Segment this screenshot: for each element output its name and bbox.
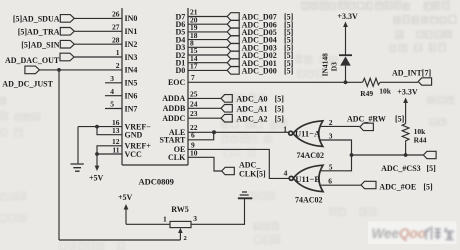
potentiometer RW5 body: [170, 221, 191, 227]
connector tag ADC_A1: [221, 105, 232, 113]
svg-text:[5]: [5]: [427, 164, 437, 173]
svg-text:+3.3V: +3.3V: [337, 12, 358, 21]
svg-text:CLK: CLK: [168, 153, 186, 162]
svg-text:13: 13: [112, 126, 120, 135]
svg-text:IN6: IN6: [125, 92, 138, 101]
wire D0 pin 17: [188, 69, 227, 71]
connector tag ADC_D06: [227, 20, 239, 28]
decorative bleed-through (not labelled): [302, 1, 449, 9]
svg-text:ADC_: ADC_: [239, 160, 261, 169]
svg-text:[5]: [5]: [275, 104, 285, 113]
svg-text:4: 4: [284, 169, 288, 178]
wire START pin 6 riser: [188, 132, 214, 140]
wire U11-B input pin 6 to ADC_#OE tag: [321, 184, 361, 186]
svg-text:[5]: [5]: [275, 114, 285, 123]
svg-text:IN3: IN3: [125, 53, 138, 62]
svg-text:D0: D0: [176, 66, 186, 75]
wire ALE pin 22 to U11-A output: [188, 131, 289, 133]
node junction diode D3 anode on EOC net: [344, 80, 348, 84]
svg-text:4: 4: [110, 87, 114, 96]
svg-text:ADDB: ADDB: [163, 104, 186, 113]
connector tag ADC_D02: [227, 51, 239, 59]
NOR gate U11-B 74AC02 (mirrored, output left): [289, 165, 323, 191]
wire D1 pin 14: [188, 62, 227, 64]
wire EOC pin 7 to R49: [188, 81, 363, 83]
svg-text:ADC_#CS3: ADC_#CS3: [381, 164, 421, 173]
wire bottom horizontal to RW5 wiper: [59, 239, 180, 241]
svg-text:2: 2: [184, 235, 187, 242]
svg-text:U11−A: U11−A: [295, 128, 321, 138]
svg-text:ADC_#RW: ADC_#RW: [347, 115, 386, 124]
svg-text:[5]AD_SDUA: [5]AD_SDUA: [13, 15, 60, 24]
connector tag ADC_#CS3: [423, 151, 436, 158]
svg-text:1: 1: [116, 48, 120, 57]
svg-text:IN4148: IN4148: [321, 53, 330, 77]
wire stub IN5 pin 3: [105, 82, 122, 84]
svg-text:+5V: +5V: [89, 174, 104, 183]
connector tag ADC_D00: [227, 67, 239, 75]
svg-text:28: 28: [112, 35, 120, 44]
connector tag ADC_A0: [221, 95, 232, 103]
svg-text:5: 5: [329, 163, 333, 172]
svg-text:23: 23: [190, 109, 198, 118]
connector tag ADC_A2: [221, 114, 232, 122]
svg-text:2: 2: [329, 118, 333, 127]
wire U11-A input pin 2 to ADC_#RW tag: [321, 125, 360, 127]
svg-text:25: 25: [190, 89, 198, 98]
svg-text:ADC_A2: ADC_A2: [236, 114, 267, 123]
wire net AD_TRA to IN1 pin 27: [74, 30, 122, 32]
wire GND pin 13 riser: [97, 127, 122, 135]
ground symbol GND1: [71, 164, 84, 171]
svg-text:EOC: EOC: [168, 78, 186, 87]
svg-text:5: 5: [110, 100, 114, 109]
svg-text:26: 26: [112, 10, 120, 19]
connector tag ADC_#OE: [361, 181, 376, 188]
svg-text:ADC_A0: ADC_A0: [236, 95, 267, 104]
svg-text:U11−B: U11−B: [295, 174, 320, 184]
svg-text:IN0: IN0: [125, 14, 138, 23]
svg-text:IN1: IN1: [125, 27, 138, 36]
svg-text:17: 17: [190, 62, 198, 71]
watermark WeeQoo weiku: [368, 222, 457, 245]
wire VREF+ pin 12 riser: [97, 146, 122, 154]
wire R49 to AD_INT tag: [380, 81, 418, 83]
connector tag AD_INT[7]: [418, 78, 431, 85]
svg-text:27: 27: [112, 23, 120, 32]
svg-text:VCC: VCC: [125, 150, 143, 159]
svg-text:10k: 10k: [379, 86, 392, 95]
wire RW5 pin 3 to ground riser: [191, 199, 245, 224]
svg-text:[5]: [5]: [284, 67, 294, 76]
wire R44 to CS3 net: [405, 143, 407, 155]
svg-text:CLK[5]: CLK[5]: [239, 169, 266, 178]
resistor R44 10k vertical zigzag: [402, 124, 409, 143]
connector tag ADC_D07: [227, 13, 239, 21]
svg-text:6: 6: [191, 131, 195, 140]
node junction ALE/START: [212, 130, 216, 134]
svg-text:1: 1: [283, 125, 287, 134]
node junction VCC/+5V: [95, 152, 99, 156]
wire ADDC pin 23: [188, 117, 221, 119]
svg-text:ADC_A1: ADC_A1: [236, 104, 267, 113]
node junction VREF-/GND: [95, 125, 99, 129]
wire D3 pin 8: [188, 46, 227, 48]
wire D2 pin 15: [188, 54, 227, 56]
svg-text:R44: R44: [414, 135, 427, 144]
svg-text:3: 3: [110, 74, 114, 83]
wire stub IN6 pin 4: [105, 95, 122, 97]
power +5V arrow down at VCC: [96, 154, 98, 166]
svg-text:+3.3V: +3.3V: [397, 88, 418, 97]
svg-text:ADC_D00: ADC_D00: [242, 67, 277, 76]
connector tag ADC_D05: [227, 28, 239, 36]
svg-text:AD_INT[7]: AD_INT[7]: [392, 69, 431, 78]
svg-text:GND: GND: [125, 131, 143, 140]
wire D6 pin 20: [188, 23, 227, 25]
power +5V arrow up (left, for RW5): [124, 204, 129, 210]
diode D3 1N4148: [345, 66, 347, 83]
svg-text:74AC02: 74AC02: [297, 151, 325, 160]
svg-text:2: 2: [116, 61, 120, 70]
wire ADDB pin 24: [188, 107, 221, 109]
wire net AD_DAC_OUT to IN3 pin 1: [74, 56, 122, 58]
svg-text:ADC_#OE: ADC_#OE: [379, 183, 416, 192]
connector tag ADC_D03: [227, 44, 239, 52]
connector tag [5]AD_TRA: [60, 28, 74, 36]
wire VREF- pin 16: [78, 126, 122, 128]
svg-text:[5]AD_SIN: [5]AD_SIN: [21, 40, 59, 49]
svg-text:74AC02: 74AC02: [295, 195, 323, 204]
svg-text:ADC0809: ADC0809: [139, 177, 174, 187]
connector tag ADC_CLK[5]: [222, 167, 235, 174]
svg-text:IN4: IN4: [125, 66, 138, 75]
wire ground drop: [77, 127, 79, 164]
svg-text:[5]: [5]: [275, 95, 285, 104]
op-amp U2 ADC0809 chip body: [122, 8, 188, 165]
wire net AD_DC_JUST to IN4 pin 2: [40, 69, 123, 71]
connector tag [5]AD_SIN: [60, 40, 74, 48]
svg-text:ADDA: ADDA: [162, 94, 185, 103]
svg-text:11: 11: [112, 145, 119, 154]
svg-text:[5]AD_TRA: [5]AD_TRA: [18, 27, 60, 36]
svg-text:AD_DAC_OUT: AD_DAC_OUT: [5, 56, 60, 65]
svg-text:ADDC: ADDC: [162, 114, 185, 123]
svg-text:7: 7: [191, 73, 195, 82]
wire stub IN7 pin 5: [105, 108, 122, 110]
wire ADDA pin 25: [188, 97, 221, 99]
ground symbol GND2 (flipped, bars on top): [240, 192, 249, 195]
node junction CS3/R44: [404, 153, 408, 157]
NOR gate U11-A 74AC02 (mirrored, output left): [289, 121, 323, 147]
svg-text:R49: R49: [360, 89, 373, 98]
wire OE pin 9 to U11-B output: [188, 149, 289, 178]
wire CLK pin 10 to ADC_CLK tag: [188, 157, 221, 171]
wire AD_DC_JUST vertical down to bottom: [58, 70, 60, 240]
resistor R49 10k zigzag: [363, 78, 380, 86]
svg-text:D3: D3: [330, 62, 339, 71]
svg-text:IN7: IN7: [125, 104, 138, 113]
svg-text:AD_DC_JUST: AD_DC_JUST: [2, 80, 53, 89]
svg-text:RW5: RW5: [171, 205, 189, 214]
svg-text:24: 24: [190, 99, 198, 108]
wire +5V to RW5 pin 1: [126, 223, 170, 225]
wire VCC pin 11: [97, 153, 122, 155]
wire R44 to +3.3V: [405, 103, 407, 124]
svg-text:6: 6: [328, 176, 332, 185]
svg-text:1: 1: [163, 214, 167, 223]
power +3.3V arrow up above R44: [403, 98, 408, 104]
wire net AD_SDUA to IN0 pin 26: [74, 17, 122, 19]
RW5 wiper arrow: [179, 231, 181, 240]
wire net ADC_#CS3: [352, 154, 424, 156]
node junction AD_DC_JUST: [57, 68, 61, 72]
wire net AD_SIN to IN2 pin 28: [74, 43, 122, 45]
svg-text:3: 3: [329, 131, 333, 140]
wire D5 pin 19: [188, 31, 227, 33]
svg-text:+5V: +5V: [118, 193, 133, 202]
wire D4 pin 18: [188, 39, 227, 41]
svg-text:START: START: [159, 135, 185, 144]
connector tag ADC_D04: [227, 36, 239, 44]
svg-text:WeeQoo: WeeQoo: [372, 226, 427, 241]
svg-text:IN5: IN5: [125, 79, 138, 88]
svg-text:[5]: [5]: [423, 183, 433, 192]
connector tag ADC_#RW: [360, 123, 374, 130]
connector tag ADC_D01: [227, 59, 239, 67]
connector tag AD_DAC_OUT: [60, 53, 74, 61]
svg-text:IN2: IN2: [125, 40, 138, 49]
connector tag [5]AD_SDUA: [60, 15, 74, 23]
svg-text:10: 10: [190, 149, 198, 158]
wire D7 pin 21: [188, 16, 227, 18]
wire U11-A input pin 3 to CS3 riser: [321, 140, 352, 171]
power +3.3V arrow up above D3: [343, 22, 348, 28]
node junction CS3/pin3: [350, 153, 354, 157]
svg-text:[5]: [5]: [395, 115, 405, 124]
connector tag AD_DC_JUST: [25, 66, 40, 74]
svg-text:3: 3: [193, 214, 197, 223]
